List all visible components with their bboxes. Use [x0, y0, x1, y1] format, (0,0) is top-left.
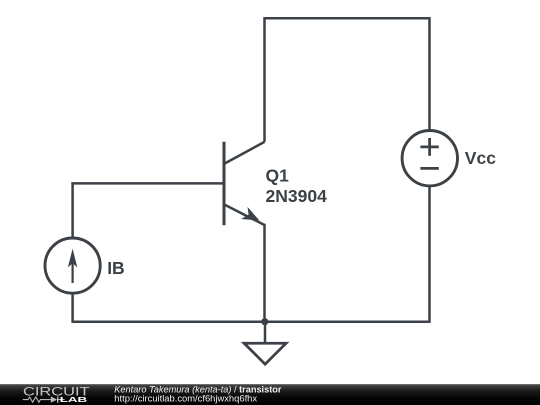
footer bar	[0, 384, 540, 405]
wire top horizontal (collector rail to Vcc)	[265, 17, 430, 20]
label Vcc	[465, 148, 496, 168]
label 2N3904	[266, 186, 328, 206]
wire collector vertical feed	[263, 17, 266, 142]
svg-text:Vcc: Vcc	[465, 148, 496, 168]
ground	[244, 322, 286, 365]
label IB	[107, 258, 125, 278]
footer logo resistor-diode glyph	[23, 396, 65, 402]
footer line 2: url	[114, 392, 257, 403]
svg-text:http://circuitlab.com/cf6hjwxh: http://circuitlab.com/cf6hjwxhq6fhx	[114, 392, 257, 403]
svg-text:LAB: LAB	[60, 395, 87, 404]
wire base horizontal (IB to Q1 base)	[71, 182, 222, 185]
wire IB top terminal up to base rail	[71, 182, 74, 237]
wire bottom horizontal rail	[73, 320, 430, 323]
svg-text:Q1: Q1	[266, 165, 290, 185]
footer logo CIRCUIT	[23, 387, 90, 399]
transistor Q1 2N3904 NPN (base bar, collector, emitter with arrow)	[224, 142, 265, 226]
footer line 1: author / title	[114, 384, 282, 394]
wire IB bottom terminal down to bottom rail	[71, 293, 74, 323]
current source IB (circle with up arrow)	[45, 238, 100, 293]
footer logo LAB	[60, 395, 87, 404]
node junction dot at emitter / bottom rail / ground	[261, 318, 268, 325]
wire right vertical upper (top rail to Vcc plus terminal)	[428, 17, 431, 130]
wire right vertical lower (Vcc minus to bottom rail)	[428, 186, 431, 323]
label Q1	[266, 165, 290, 185]
svg-text:2N3904: 2N3904	[266, 186, 328, 206]
svg-text:IB: IB	[107, 258, 125, 278]
voltage source Vcc (U-style circle with plus and minus)	[402, 131, 457, 186]
wire emitter vertical down to bottom rail	[263, 224, 266, 322]
